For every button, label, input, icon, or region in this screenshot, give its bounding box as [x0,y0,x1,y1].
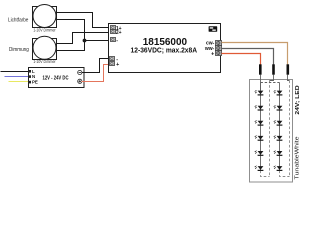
manufacturer logo [209,26,218,32]
wire pin1 into strip / ww chain feed [260,75,262,91]
value label 1-10V Dimmer (P1) [33,27,56,32]
wire mains N [5,76,29,78]
power supply PS1 12V-24V DC [29,68,85,88]
svg-text:-: - [116,38,118,44]
svg-text:PE: PE [32,80,38,85]
LED D1 (ww chain) [255,90,264,95]
terminal - (supply minus) of U1 [110,57,115,61]
wire P1 - output to junction [57,20,85,41]
connector pin 2 (ww-) of strip [272,64,275,74]
wire P2 - output to junction [57,41,85,51]
wire ww LED chain [260,83,262,171]
potentiometer P2 (Dimmung 1-10V dimmer) [33,36,57,59]
svg-text:12-36VDC; max.2x8A: 12-36VDC; max.2x8A [131,48,198,55]
svg-text:+: + [116,62,119,68]
wire PS1 - to controller - [82,59,110,73]
label Lichtfarbe [8,18,28,24]
LED D11 (cw chain) [274,151,283,156]
LED D7 (cw chain) [274,90,283,95]
terminal - (DC minus) of PS1 [78,70,82,74]
terminal + (LED common plus) of U1 [216,51,222,56]
value label 1-10V Dimmer (P2) [33,59,56,64]
wire + to LED strip left pin (red) [222,54,261,65]
svg-text:1-10V Dimmer: 1-10V Dimmer [33,27,56,32]
LED D2 (ww chain) [255,105,264,110]
wire cw- to LED strip right pin (tan) [222,43,288,65]
svg-text:+: + [211,51,214,57]
LED D12 (cw chain) [274,166,283,171]
label 24V; LED (rotated) [295,85,301,115]
terminal N of PS1 [28,75,31,78]
pin label - (dimmer common) [116,38,118,44]
pin label 1+ [116,26,122,32]
connector pin 3 (cw-) of strip [287,64,290,74]
terminal + (DC plus) of PS1 [78,79,82,83]
terminal ww- of U1 [216,46,222,51]
junction dot (dimmer minus common) [83,39,87,43]
pin label ww- [204,46,215,52]
wire P1 + output to terminal 1+ [57,13,111,28]
terminal 1+ of U1 [111,26,116,30]
svg-text:TunableWhite: TunableWhite [294,136,300,179]
part number label 18156000 [143,37,188,48]
LED D4 (ww chain) [255,136,264,141]
label TunableWhite (rotated) [294,136,300,179]
pin label N [32,74,35,79]
connector pin 1 (+) of strip [259,64,262,74]
LED D9 (cw chain) [274,120,283,125]
wire pin2 jog to ww return line [270,75,274,81]
wire pin3 jog to cw return line [288,75,290,81]
LED D6 (ww chain) [255,166,264,171]
wire cw return (dashed) [289,81,291,177]
wire junction to terminal - [85,40,111,42]
svg-text:L: L [32,69,35,74]
value label 12V - 24V DC [43,75,69,81]
LED strip module (24V tunable white) [250,80,293,183]
label Dimmung [9,47,29,53]
terminal cw- of U1 [216,41,222,46]
svg-text:Dimmung: Dimmung [9,47,29,53]
terminal L of PS1 [28,70,31,73]
svg-text:12V - 24V DC: 12V - 24V DC [43,75,69,81]
terminal 2+ of U1 [111,30,116,34]
rating label 12-36VDC; max.2x8A [131,48,198,55]
pin label cw- [206,41,215,47]
svg-text:N: N [32,74,35,79]
terminal PE of PS1 [28,81,31,84]
LED D10 (cw chain) [274,136,283,141]
svg-text:1-10V Dimmer: 1-10V Dimmer [33,59,56,64]
svg-text:2+: 2+ [116,30,122,36]
wire mains PE [9,81,29,83]
pin label L [32,69,35,74]
pin label 2+ [116,30,122,36]
wire ww chain bottom (dashed) [261,171,270,177]
controller U1 (tunable-white LED dimmer 18156000) [109,24,221,73]
svg-text:24V; LED: 24V; LED [295,85,300,115]
pin label PE [32,80,38,85]
wire cw LED chain [279,83,281,171]
pin label + (supply plus) [116,62,119,68]
terminal + (supply plus) of U1 [110,62,115,66]
pin label - (supply minus) [116,57,118,63]
wire ww- to LED strip middle pin (grey) [222,49,274,65]
wire cw chain bottom (dashed) [280,171,290,177]
pin label + (LED common plus) [211,51,214,57]
wire plus rail (dashed) [261,82,280,84]
wire ww return (dashed) [269,81,271,177]
LED D8 (cw chain) [274,105,283,110]
svg-text:Lichtfarbe: Lichtfarbe [8,18,28,24]
svg-text:18156000: 18156000 [143,37,188,48]
LED D5 (ww chain) [255,151,264,156]
wire P2 + output to terminal 2+ [57,33,111,44]
wire PS1 + to controller + (red) [82,65,110,82]
wire mains L [1,71,29,73]
terminal - (dimmer common) of U1 [111,38,116,42]
LED D3 (ww chain) [255,120,264,125]
potentiometer P1 (Lichtfarbe 1-10V dimmer) [33,5,57,28]
